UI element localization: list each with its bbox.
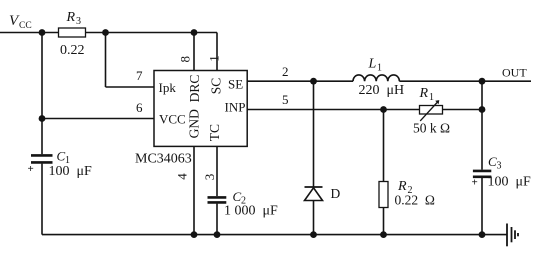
- wire C2 to ground rail: [216, 204, 218, 235]
- svg-text:Ipk: Ipk: [159, 80, 177, 95]
- junction dot INP / C3 node: [479, 106, 486, 113]
- wire OUT node down to C3: [481, 81, 483, 169]
- wire VCC input to R3: [0, 32, 59, 34]
- wire L1 to OUT: [399, 80, 531, 82]
- wire C3 to ground rail: [481, 178, 483, 235]
- svg-text:GND: GND: [186, 109, 201, 138]
- net VCC label: [9, 13, 32, 31]
- wire pin 5 INP to R1: [247, 109, 419, 111]
- svg-text:7: 7: [136, 68, 143, 83]
- ground symbol: [507, 224, 518, 247]
- svg-text:R: R: [419, 86, 429, 101]
- svg-text:+: +: [28, 163, 34, 175]
- wire R2 to ground rail: [383, 208, 385, 235]
- svg-text:100 μF: 100 μF: [488, 175, 532, 190]
- svg-text:3: 3: [202, 174, 217, 181]
- svg-text:1: 1: [377, 63, 382, 74]
- svg-text:R: R: [66, 10, 76, 25]
- svg-text:100 μF: 100 μF: [49, 164, 93, 179]
- svg-text:4: 4: [175, 173, 190, 180]
- label C1: [57, 149, 71, 167]
- wire down to pin 1 SC: [216, 33, 218, 71]
- svg-text:1 000 μF: 1 000 μF: [224, 204, 278, 219]
- junction dot Ipk branch: [102, 29, 109, 36]
- capacitor C3: [473, 171, 491, 177]
- wire to pin 7 Ipk: [106, 86, 155, 88]
- wire pin 4 GND to ground rail: [193, 146, 195, 234]
- resistor R3: [59, 28, 86, 37]
- svg-text:D: D: [331, 186, 341, 201]
- wire Ipk branch vertical: [105, 33, 107, 88]
- wire R1 to output node: [443, 109, 483, 111]
- svg-text:L: L: [368, 57, 377, 72]
- ground rail wire: [42, 234, 507, 236]
- svg-text:8: 8: [177, 56, 192, 63]
- resistor R2: [379, 182, 388, 208]
- svg-text:SC: SC: [209, 78, 224, 95]
- diode D: [305, 187, 323, 201]
- label L1: [368, 57, 383, 74]
- svg-text:5: 5: [282, 92, 289, 107]
- svg-text:2: 2: [282, 64, 289, 79]
- junction dot VCC / C1 branch: [39, 29, 46, 36]
- potentiometer R1: [420, 100, 443, 121]
- junction dot DRC branch: [191, 29, 198, 36]
- label C3: [488, 154, 502, 172]
- wire diode to ground rail: [313, 201, 315, 235]
- wire down to pin 8 DRC: [193, 33, 195, 71]
- wire to pin 6 VCC: [42, 118, 154, 120]
- junction dot R2 branch: [380, 106, 387, 113]
- svg-text:OUT: OUT: [502, 66, 527, 80]
- svg-text:0.22 Ω: 0.22 Ω: [395, 193, 435, 208]
- wire R2 branch down: [383, 110, 385, 182]
- junction dot pin4 / ground rail: [191, 231, 198, 238]
- wire pin 2 SE to L1: [247, 80, 353, 82]
- svg-text:1: 1: [429, 92, 434, 103]
- junction dot C3 / ground rail: [479, 231, 486, 238]
- svg-text:MC34063: MC34063: [135, 152, 192, 167]
- label R1: [419, 86, 435, 103]
- wire R3 to pin 1 corner: [86, 32, 218, 34]
- svg-text:TC: TC: [207, 124, 222, 141]
- svg-text:0.22: 0.22: [60, 43, 85, 58]
- svg-text:6: 6: [136, 100, 143, 115]
- junction dot OUT / C3 branch: [479, 78, 486, 85]
- svg-text:1: 1: [207, 55, 222, 62]
- svg-text:VCC: VCC: [159, 112, 186, 127]
- svg-text:INP: INP: [225, 99, 246, 114]
- svg-text:+: +: [472, 177, 478, 189]
- junction dot diode / ground rail: [310, 231, 317, 238]
- label R3: [66, 10, 82, 27]
- svg-text:220 μH: 220 μH: [359, 83, 405, 98]
- junction dot C2 / ground rail: [214, 231, 221, 238]
- junction dot R2 / ground rail: [380, 231, 387, 238]
- wire SE node down to diode: [313, 81, 315, 187]
- junction dot diode branch: [310, 78, 317, 85]
- wire VCC rail down to C1: [41, 33, 43, 155]
- wire pin 3 TC down to C2: [216, 146, 218, 196]
- svg-text:SE: SE: [228, 77, 243, 92]
- svg-text:DRC: DRC: [187, 75, 202, 103]
- label R2: [397, 179, 413, 196]
- wire C1 to ground rail: [41, 164, 43, 235]
- capacitor C1: [31, 155, 53, 162]
- svg-text:3: 3: [76, 16, 81, 27]
- junction dot pin 6 branch: [39, 115, 46, 122]
- svg-text:CC: CC: [19, 21, 32, 31]
- svg-text:3: 3: [497, 161, 502, 172]
- svg-text:50 k Ω: 50 k Ω: [413, 121, 450, 136]
- inductor L1: [353, 75, 399, 81]
- capacitor C2: [208, 197, 227, 202]
- IC U1 MC34063 box: [154, 71, 247, 147]
- label C2: [233, 189, 247, 207]
